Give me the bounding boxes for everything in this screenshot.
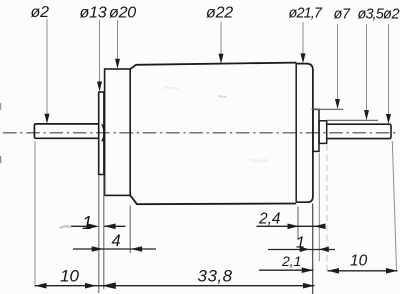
svg-text:2,1: 2,1 <box>281 253 301 269</box>
flange o13 <box>99 92 104 175</box>
end cap seam line <box>295 63 297 202</box>
svg-text:ø13: ø13 <box>80 5 107 22</box>
leader and label o2 left <box>31 4 50 124</box>
extension line boss right edge <box>318 153 320 261</box>
svg-text:ø2: ø2 <box>383 7 399 23</box>
shaft fillet arc at flange <box>102 124 104 141</box>
right shaft o2 <box>327 124 391 138</box>
extension line shaft step (faint) <box>326 145 328 272</box>
svg-text:2,4: 2,4 <box>258 211 281 228</box>
main body o22 top edge with chamfer <box>130 63 296 70</box>
extension line body left face <box>129 206 131 254</box>
leader and label o2 right <box>383 7 399 125</box>
leader and label o7 <box>334 7 351 110</box>
main body o22 bottom edge with chamfer <box>130 195 296 204</box>
svg-text:ø2: ø2 <box>31 4 50 21</box>
svg-text:ø7: ø7 <box>334 7 351 23</box>
leader and label o3.5 <box>358 7 385 121</box>
dimension 33.8 <box>102 267 315 290</box>
extension line right shaft end <box>392 141 396 270</box>
left shaft body o2 <box>34 124 99 138</box>
extension line flange right edge <box>103 176 105 290</box>
svg-text:33,8: 33,8 <box>198 267 233 286</box>
dimension line 10-left / 33.8 shared <box>35 285 315 287</box>
svg-text:ø20: ø20 <box>109 5 136 22</box>
svg-text:10: 10 <box>60 267 79 286</box>
centerline <box>3 132 399 134</box>
dimension 2.4 end cap <box>257 211 326 230</box>
shaft o3.5 top extension line <box>327 119 378 121</box>
svg-text:ø22: ø22 <box>206 5 233 22</box>
dimension 10 right <box>328 253 398 274</box>
svg-text:ø3,5: ø3,5 <box>358 7 385 23</box>
dimension 1 boss width <box>268 235 335 253</box>
leader and label o20 <box>109 5 136 69</box>
svg-text:4: 4 <box>112 232 121 250</box>
leader and label o13 <box>80 5 107 92</box>
extension line flange left edge <box>98 176 100 294</box>
svg-text:1: 1 <box>296 235 305 252</box>
step section o20 <box>105 69 131 195</box>
dimension 10 left <box>35 267 97 289</box>
boss top extension line <box>312 108 344 110</box>
svg-text:1: 1 <box>82 212 92 233</box>
leader and label o22 <box>206 5 233 64</box>
boss o7 <box>313 109 319 151</box>
dimension 2.1 <box>259 253 313 273</box>
extension line end cap seam <box>297 207 299 241</box>
extension line cap right edge <box>312 204 314 294</box>
extension line left shaft end <box>34 141 36 287</box>
leader and label o21.7 <box>289 6 323 64</box>
dimension 1 flange width <box>71 212 126 233</box>
svg-text:ø21,7: ø21,7 <box>289 6 323 22</box>
svg-text:10: 10 <box>350 253 368 270</box>
shaft section o3.5 <box>319 121 327 144</box>
dimension 4 <box>73 232 156 252</box>
end cap o21.7 <box>296 64 313 203</box>
